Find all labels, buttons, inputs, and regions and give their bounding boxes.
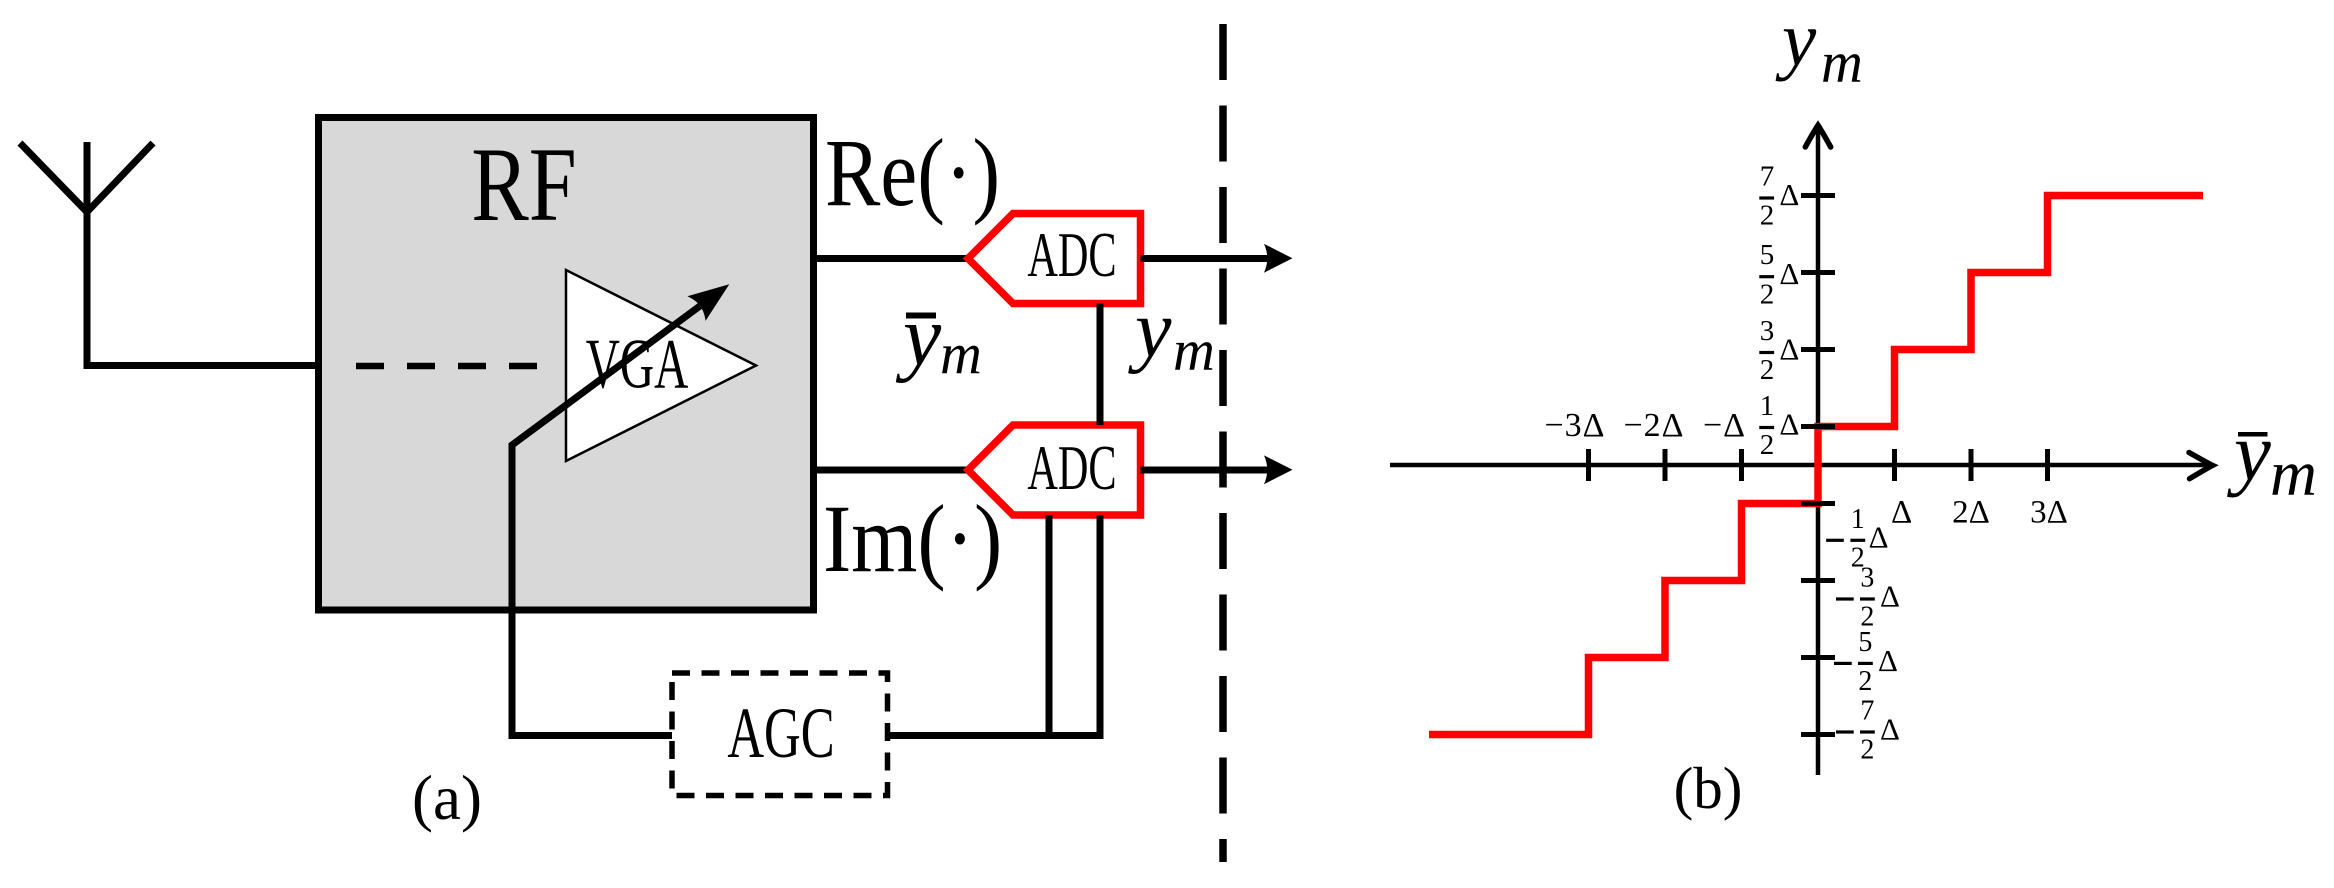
y_m node label bbox=[1128, 284, 1215, 383]
ybar_m node label bbox=[895, 288, 982, 387]
ADC2 output wire bbox=[1141, 467, 1269, 474]
y tick label 5/2 D bbox=[1759, 239, 1799, 310]
svg-text:1: 1 bbox=[1760, 390, 1775, 422]
svg-text:2Δ: 2Δ bbox=[1952, 495, 1990, 531]
RF block bbox=[319, 118, 814, 611]
svg-text:(a): (a) bbox=[412, 763, 482, 833]
svg-text:1: 1 bbox=[1851, 504, 1865, 535]
svg-text:Δ: Δ bbox=[1779, 177, 1799, 212]
svg-text:7: 7 bbox=[1760, 161, 1775, 193]
svg-text:ADC: ADC bbox=[1027, 433, 1116, 503]
y tick label 7/2 D bbox=[1759, 161, 1799, 232]
svg-text:2: 2 bbox=[1860, 734, 1874, 765]
svg-text:m: m bbox=[2270, 438, 2317, 510]
y axis bbox=[1816, 130, 1821, 775]
svg-text:RF: RF bbox=[471, 126, 576, 243]
ADC1 output arrow head bbox=[1264, 244, 1293, 273]
AGC dashed box bbox=[672, 673, 888, 796]
svg-text:Δ: Δ bbox=[1891, 495, 1912, 531]
svg-text:7: 7 bbox=[1860, 696, 1874, 727]
svg-text:ADC: ADC bbox=[1027, 220, 1116, 290]
y tick label 3/2 D bbox=[1759, 315, 1799, 386]
svg-text:2: 2 bbox=[1760, 278, 1775, 310]
svg-text:−2Δ: −2Δ bbox=[1623, 407, 1684, 444]
svg-text:Δ: Δ bbox=[1779, 407, 1799, 442]
ADC2 output arrow head bbox=[1264, 455, 1293, 484]
y ticks bbox=[1801, 196, 1835, 735]
svg-text:Δ: Δ bbox=[1880, 711, 1900, 746]
svg-text:m: m bbox=[1173, 318, 1215, 383]
y axis arrow head bbox=[1805, 125, 1830, 147]
y tick label -3/2 D bbox=[1836, 563, 1900, 633]
wire AGC to feedback bbox=[888, 732, 1104, 739]
y tick label -1/2 D bbox=[1826, 504, 1888, 574]
ADC1 output wire bbox=[1141, 255, 1269, 262]
wire ADC1 feedback down bbox=[1097, 515, 1104, 736]
x axis bbox=[1390, 463, 2208, 468]
antenna bbox=[20, 142, 321, 366]
gain arrow head bbox=[690, 286, 727, 318]
y tick label 1/2 D bbox=[1759, 390, 1799, 461]
svg-text:−Δ: −Δ bbox=[1703, 407, 1746, 444]
svg-text:5: 5 bbox=[1858, 627, 1872, 658]
svg-text:2: 2 bbox=[1760, 429, 1775, 461]
wire ADC2 feedback down bbox=[1046, 515, 1053, 739]
svg-text:m: m bbox=[940, 321, 982, 386]
VGA amplifier triangle bbox=[566, 270, 756, 461]
dashed separator line bbox=[1219, 24, 1227, 862]
wire RF to ADC1 bbox=[813, 255, 966, 262]
dashed gain line bbox=[356, 363, 537, 370]
svg-text:y: y bbox=[2227, 406, 2271, 498]
svg-text:VGA: VGA bbox=[586, 325, 689, 404]
y tick label -5/2 D bbox=[1834, 627, 1898, 697]
svg-text:5: 5 bbox=[1760, 239, 1775, 271]
svg-text:−3Δ: −3Δ bbox=[1544, 407, 1605, 444]
svg-text:y: y bbox=[895, 288, 942, 384]
svg-text:3: 3 bbox=[1860, 563, 1874, 594]
x axis title ybar_m bbox=[2227, 406, 2317, 510]
svg-text:AGC: AGC bbox=[727, 692, 834, 773]
svg-text:Δ: Δ bbox=[1878, 643, 1898, 678]
x ticks bbox=[1589, 449, 2048, 481]
svg-text:Δ: Δ bbox=[1869, 520, 1889, 555]
svg-text:Re(·): Re(·) bbox=[825, 120, 1000, 226]
quantizer staircase bbox=[1429, 196, 2203, 735]
wire RF to ADC2 bbox=[813, 467, 966, 474]
svg-text:2: 2 bbox=[1760, 200, 1775, 232]
svg-text:Δ: Δ bbox=[1779, 332, 1799, 367]
gain control wire bbox=[512, 306, 700, 736]
svg-text:y: y bbox=[1775, 0, 1817, 82]
svg-text:3Δ: 3Δ bbox=[2030, 495, 2068, 531]
ADC1 block bbox=[968, 214, 1141, 304]
svg-text:Δ: Δ bbox=[1779, 256, 1799, 291]
svg-text:Δ: Δ bbox=[1880, 578, 1900, 613]
svg-text:3: 3 bbox=[1760, 315, 1775, 347]
y tick label -7/2 D bbox=[1836, 696, 1900, 766]
svg-text:m: m bbox=[1821, 30, 1863, 95]
svg-text:2: 2 bbox=[1858, 666, 1872, 697]
svg-text:(b): (b) bbox=[1674, 755, 1743, 821]
svg-text:2: 2 bbox=[1760, 354, 1775, 386]
svg-text:Im(·): Im(·) bbox=[823, 485, 1002, 592]
wire ADC1 to ADC2 top bbox=[1097, 304, 1104, 426]
y axis title y_m bbox=[1775, 0, 1863, 95]
ADC2 block bbox=[968, 425, 1141, 515]
x axis arrow head bbox=[2189, 453, 2213, 479]
